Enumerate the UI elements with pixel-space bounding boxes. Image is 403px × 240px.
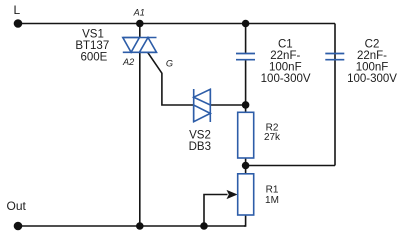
junction bottom rail / wiper <box>200 222 208 230</box>
wire C1 branch upper (top rail to C1) <box>245 24 247 53</box>
wiper arrowhead <box>227 190 238 199</box>
junction bottom rail / triac A2 <box>136 222 144 230</box>
svg-text:C1: C1 <box>278 38 293 50</box>
wire C2 branch (down from top rail, through C2, to lower link) <box>334 24 336 166</box>
terminal Out <box>14 222 23 231</box>
junction top rail / C1 <box>242 20 250 28</box>
svg-text:VS2: VS2 <box>189 130 211 142</box>
svg-text:R1: R1 <box>266 184 279 195</box>
wire R1 bottom to bottom rail <box>244 215 246 226</box>
svg-text:BT137: BT137 <box>75 40 109 52</box>
junction R2 / R1 / C2 link <box>242 162 250 170</box>
svg-text:600E: 600E <box>80 52 107 64</box>
triac VS1 symbol <box>123 38 157 53</box>
svg-text:100nF: 100nF <box>269 62 302 74</box>
svg-text:1M: 1M <box>265 195 279 206</box>
wire link R2/R1 junction to C2 bottom <box>246 165 335 167</box>
svg-text:22nF-: 22nF- <box>270 50 300 62</box>
svg-text:100-300V: 100-300V <box>347 73 397 85</box>
wire diac output to node <box>210 104 245 106</box>
terminal L <box>14 19 23 28</box>
svg-text:Out: Out <box>7 199 27 213</box>
svg-text:A1: A1 <box>133 8 145 18</box>
wire C1 bottom to R2 top (through node) <box>245 60 247 112</box>
svg-text:A2: A2 <box>122 57 134 67</box>
wire gate G from triac to diac <box>148 53 194 105</box>
svg-text:VS1: VS1 <box>82 29 104 41</box>
wire bottom rail Out to R1 <box>18 225 246 227</box>
diac VS2 symbol <box>194 89 211 122</box>
wire top rail L to C2 corner <box>18 23 335 25</box>
svg-text:L: L <box>14 3 21 17</box>
svg-text:G: G <box>166 58 173 68</box>
svg-text:C2: C2 <box>365 38 380 50</box>
wire potentiometer wiper <box>204 195 228 227</box>
svg-text:100nF: 100nF <box>356 62 389 74</box>
junction node A1 <box>136 20 144 28</box>
wire R2 bottom to R1 top <box>245 158 247 174</box>
svg-text:DB3: DB3 <box>189 141 211 153</box>
capacitor C1 symbol <box>236 54 255 60</box>
capacitor C2 symbol <box>325 54 344 60</box>
svg-text:22nF-: 22nF- <box>357 50 387 62</box>
svg-text:27k: 27k <box>264 132 281 143</box>
junction diac / C1 / R2 <box>242 101 250 109</box>
svg-text:100-300V: 100-300V <box>261 73 311 85</box>
wire triac A2 to bottom rail <box>139 52 141 226</box>
resistor R2 symbol <box>238 112 254 158</box>
potentiometer R1 symbol <box>238 174 254 215</box>
wire triac A1 (top rail to triac) <box>139 24 141 38</box>
